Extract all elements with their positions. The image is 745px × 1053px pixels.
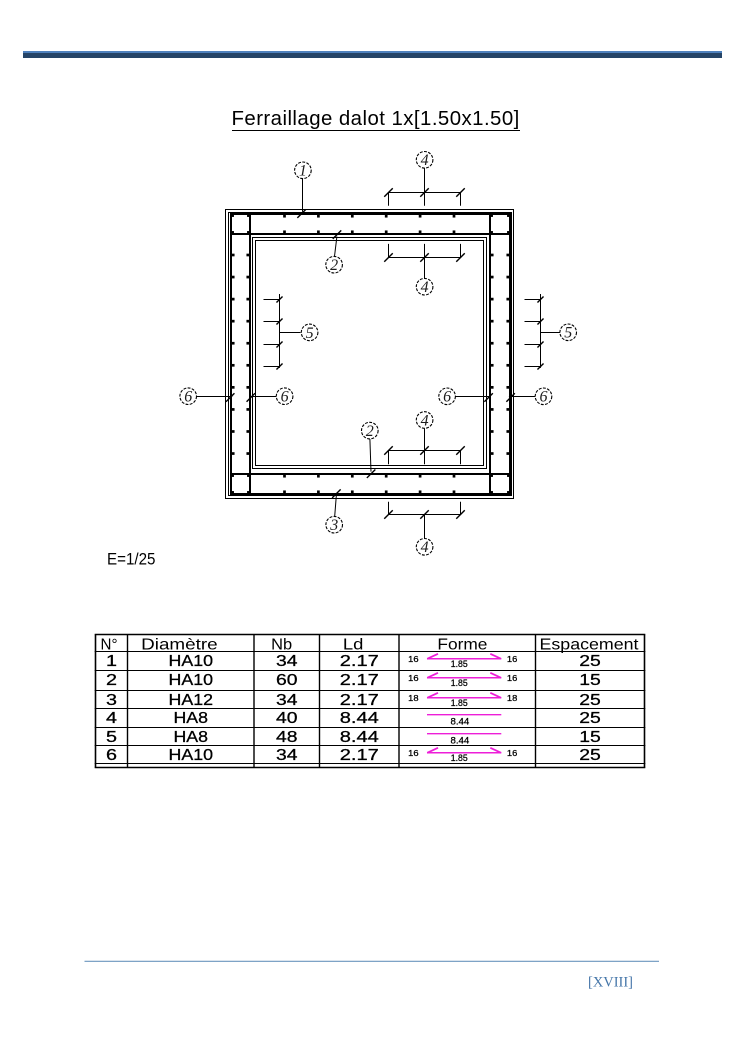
svg-text:4: 4 [421, 539, 429, 556]
svg-text:5: 5 [306, 325, 314, 342]
svg-text:16: 16 [408, 673, 419, 683]
bar shape sketch row 6 [427, 752, 501, 754]
svg-text:E=1/25: E=1/25 [107, 549, 156, 568]
svg-text:3: 3 [106, 692, 117, 709]
svg-text:2: 2 [106, 672, 117, 689]
svg-text:4: 4 [421, 279, 429, 296]
svg-text:N°: N° [101, 637, 118, 654]
title: Ferraillage dalot 1x[1.50x1.50] [232, 109, 520, 132]
svg-text:4: 4 [421, 412, 429, 429]
support bar 4 symbol, bottom outer [389, 514, 461, 516]
svg-text:Nb: Nb [271, 637, 292, 654]
bar shape sketch row 3 [427, 697, 501, 699]
svg-text:2.17: 2.17 [340, 692, 379, 709]
svg-text:1.85: 1.85 [451, 658, 468, 669]
leader line for bar 6 left inner [250, 396, 277, 398]
top page border, thick dark blue line [23, 53, 723, 57]
svg-text:18: 18 [408, 693, 419, 703]
svg-text:2: 2 [366, 423, 374, 440]
svg-text:Ld: Ld [343, 637, 364, 654]
svg-text:6: 6 [540, 389, 548, 406]
bar mark bubble 6 left inner [276, 388, 293, 406]
svg-text:Forme: Forme [437, 637, 487, 654]
svg-text:25: 25 [579, 710, 601, 727]
svg-text:8.44: 8.44 [451, 716, 470, 727]
svg-text:16: 16 [507, 654, 518, 664]
leader line for bar 6 right outer [509, 396, 535, 398]
svg-text:[XVIII]: [XVIII] [588, 974, 633, 991]
bar mark bubble 2 top [326, 256, 343, 274]
pin bars 5 symbol, right wall [540, 294, 542, 368]
svg-text:HA8: HA8 [174, 729, 209, 746]
svg-text:1.85: 1.85 [451, 752, 468, 763]
bar mark bubble 6 right inner [439, 388, 456, 406]
svg-text:34: 34 [276, 747, 298, 764]
inner rebar lines (bars 2 and 6 inner layer) [249, 214, 251, 494]
footer rule [85, 960, 660, 962]
bar mark bubble 5 right [560, 324, 577, 342]
bar mark bubble 1 [295, 162, 312, 180]
svg-text:1.85: 1.85 [451, 677, 468, 688]
bar mark bubble 3 [326, 516, 343, 534]
rebar schedule table grid [95, 634, 646, 636]
bar mark bubble 6 right outer [535, 388, 552, 406]
svg-text:2: 2 [330, 257, 338, 274]
leader line for bar 6 left outer [197, 396, 233, 398]
support bar 4 symbol, top inner [389, 257, 461, 259]
bar mark bubble 2 bottom [362, 422, 379, 440]
svg-text:HA10: HA10 [169, 653, 214, 670]
svg-text:15: 15 [579, 672, 601, 689]
svg-text:2.17: 2.17 [340, 653, 379, 670]
bar shape sketch row 2 [427, 677, 501, 679]
svg-text:1: 1 [299, 163, 307, 180]
outer concrete outline (double line) [226, 210, 514, 499]
svg-text:25: 25 [579, 692, 601, 709]
bar shape sketch row 4 [427, 714, 501, 716]
bar shape sketch row 1 [427, 658, 501, 660]
svg-text:25: 25 [579, 747, 601, 764]
leader line for bar 3 [335, 496, 337, 517]
transverse bar dots, top wall [283, 215, 286, 218]
leader line for bar 1 [302, 179, 304, 212]
leader line for bar 2 bottom [370, 439, 371, 472]
svg-text:34: 34 [276, 653, 298, 670]
svg-text:25: 25 [579, 653, 601, 670]
bar mark bubble 4 top outer [416, 152, 433, 170]
corner stirrup dots [231, 214, 234, 217]
svg-text:1: 1 [106, 653, 117, 670]
transverse bar dots, right wall [506, 254, 509, 257]
bar mark bubble 6 left outer [180, 388, 197, 406]
svg-text:4: 4 [421, 152, 429, 169]
svg-text:16: 16 [507, 673, 518, 683]
svg-text:16: 16 [408, 654, 419, 664]
svg-text:16: 16 [507, 748, 518, 758]
top page border, thin light blue line [23, 51, 723, 53]
svg-text:16: 16 [408, 748, 419, 758]
leader line for bar 6 right inner [455, 396, 490, 398]
leader line for bar 2 top [335, 237, 337, 257]
svg-text:Espacement: Espacement [540, 637, 640, 654]
svg-text:1.85: 1.85 [451, 697, 468, 708]
svg-text:2.17: 2.17 [340, 672, 379, 689]
svg-text:18: 18 [507, 693, 518, 703]
bar mark bubble 4 bottom inner [416, 412, 433, 430]
svg-text:HA12: HA12 [169, 692, 214, 709]
outer rebar rectangle (bars 1, 3 and 6 outer layer) [231, 214, 510, 494]
support bar 4 symbol, bottom inner [389, 450, 461, 452]
pin bars 5 symbol, left wall [279, 294, 281, 368]
transverse bar dots, left wall [232, 254, 235, 257]
svg-text:6: 6 [106, 747, 117, 764]
svg-text:HA10: HA10 [169, 747, 214, 764]
svg-text:5: 5 [106, 729, 117, 746]
svg-text:60: 60 [276, 672, 298, 689]
svg-text:6: 6 [184, 389, 192, 406]
bar mark bubble 4 top inner [416, 278, 433, 296]
svg-text:15: 15 [579, 729, 601, 746]
svg-text:6: 6 [443, 389, 451, 406]
svg-text:HA10: HA10 [169, 672, 214, 689]
svg-text:3: 3 [329, 517, 338, 534]
bar shape sketch row 5 [427, 733, 501, 735]
svg-text:8.44: 8.44 [340, 710, 379, 727]
svg-text:HA8: HA8 [174, 710, 209, 727]
svg-text:40: 40 [276, 710, 298, 727]
svg-text:4: 4 [106, 710, 117, 727]
svg-text:34: 34 [276, 692, 298, 709]
support bar 4 symbol, top outer [389, 192, 461, 194]
svg-text:8.44: 8.44 [451, 735, 470, 746]
svg-text:6: 6 [281, 389, 289, 406]
inner concrete outline (double line) [253, 238, 487, 469]
transverse bar dots, bottom wall [283, 475, 286, 478]
svg-text:48: 48 [276, 729, 298, 746]
svg-text:Diamètre: Diamètre [141, 637, 218, 654]
svg-text:8.44: 8.44 [340, 729, 379, 746]
bar mark bubble 4 bottom outer [416, 539, 433, 557]
bar mark bubble 5 left [301, 324, 318, 342]
svg-text:5: 5 [564, 325, 572, 342]
svg-text:2.17: 2.17 [340, 747, 379, 764]
